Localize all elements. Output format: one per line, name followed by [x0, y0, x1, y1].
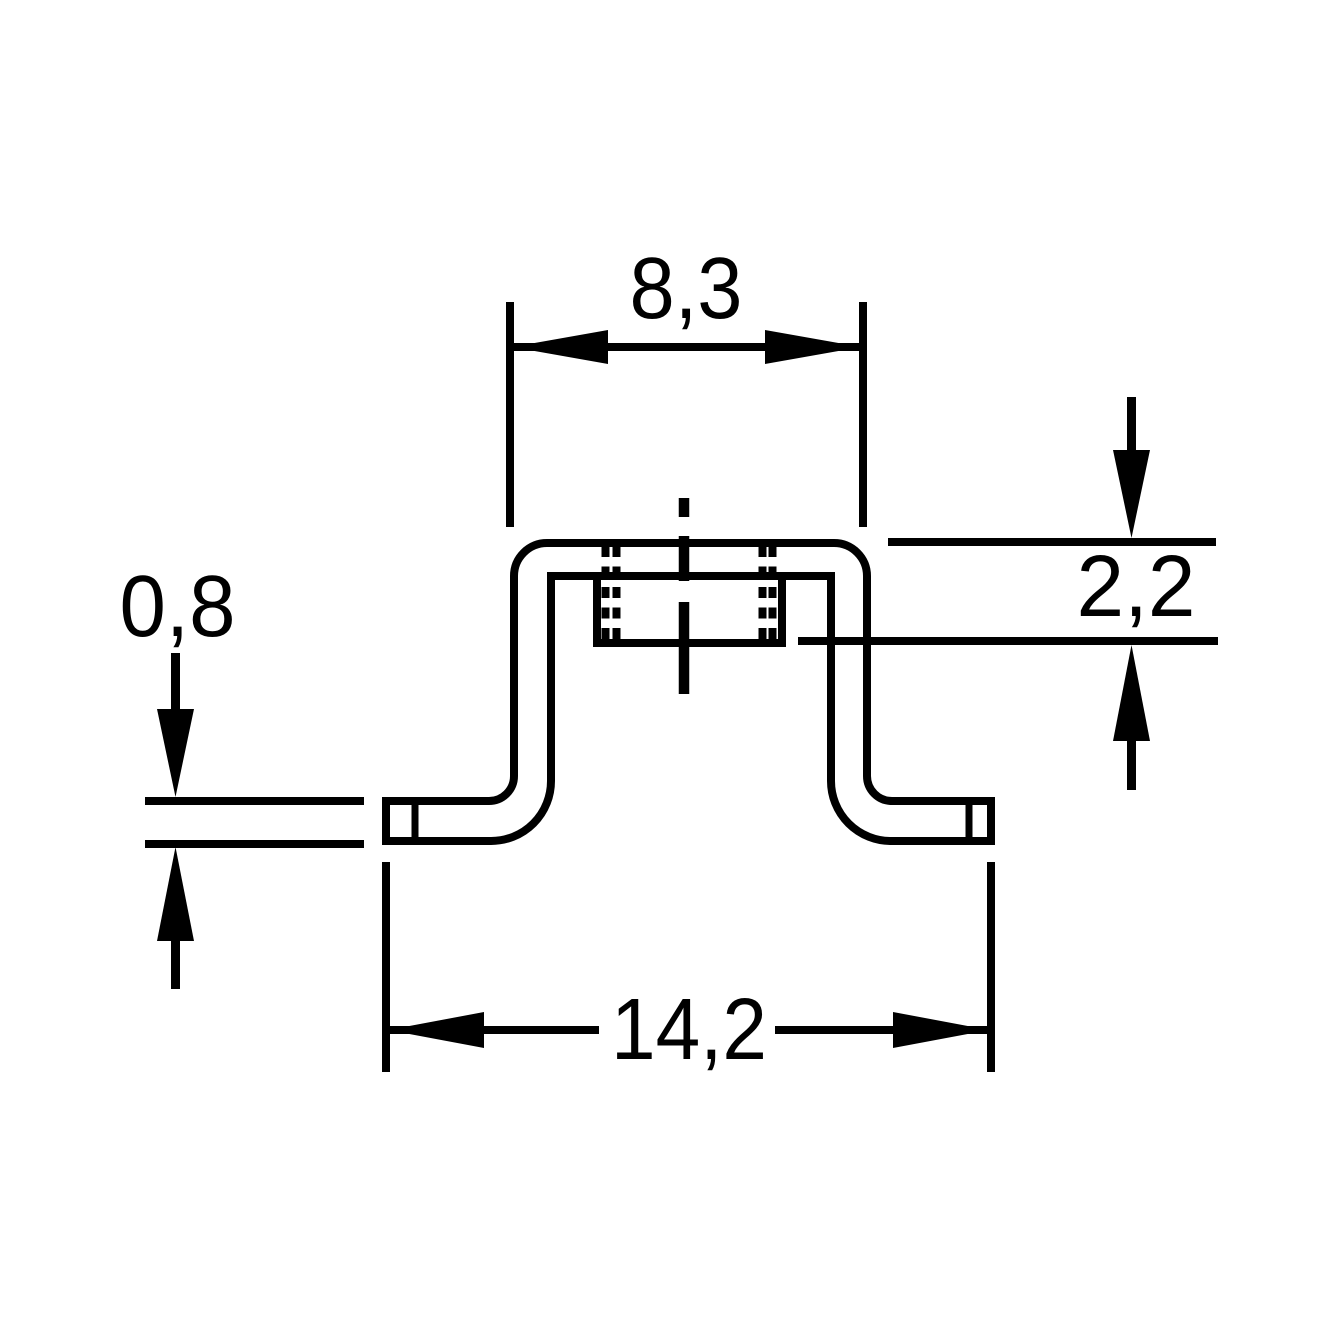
- dim 8,3 left extension line: [506, 302, 514, 527]
- dim 0,8 up arrowhead: [157, 847, 194, 941]
- dim 2,2 down arrow stem: [1127, 397, 1136, 455]
- dim 0,8 up arrow stem: [171, 935, 180, 989]
- dim 14,2 right extension line: [987, 862, 995, 1072]
- knurl dotted line left a: [602, 546, 610, 647]
- dim 2,2 down arrowhead: [1113, 450, 1150, 538]
- left foot end cap: [382, 797, 390, 845]
- dim 8,3 dimension line: [513, 343, 860, 351]
- svg-text:2,2: 2,2: [1077, 538, 1196, 635]
- dim 2,2 up arrow stem: [1127, 735, 1136, 790]
- dim 14,2 right arrowhead: [893, 1012, 989, 1048]
- dim 0,8 down arrowhead: [157, 709, 194, 797]
- dim 0,8 down arrow stem: [171, 653, 180, 712]
- right foot inner edge line: [966, 803, 973, 839]
- center insert box bottom edge: [593, 639, 786, 647]
- profile outer-top contour (hat top outer surface, legs outer, feet top): [386, 543, 991, 801]
- dim 14,2 left arrowhead: [388, 1012, 484, 1048]
- knurl dotted line right a: [759, 546, 767, 647]
- center insert box left edge: [593, 576, 601, 643]
- dim 2,2 bottom extension line: [798, 637, 1218, 645]
- dim 8,3 left arrowhead: [512, 330, 608, 364]
- dim 2,2 top extension line: [888, 538, 1216, 546]
- dim 14,2 dimension line right segment: [775, 1026, 988, 1034]
- knurl dotted line left b: [613, 546, 621, 647]
- svg-text:14,2: 14,2: [611, 981, 767, 1078]
- right foot end cap: [987, 797, 995, 845]
- vertical center line (dash-dot): [679, 498, 690, 694]
- sheet strip left bottom line: [145, 840, 364, 848]
- dim 8,3 right extension line: [859, 302, 867, 527]
- svg-text:8,3: 8,3: [630, 240, 743, 337]
- center insert box right edge: [778, 576, 786, 643]
- dim 14,2 dimension line left segment: [389, 1026, 599, 1034]
- profile inner-bottom contour (hat top inner surface, legs inner, feet bottom): [386, 576, 991, 841]
- sheet strip left (thickness reference) top line: [145, 797, 364, 805]
- dim 2,2 up arrowhead: [1113, 645, 1150, 741]
- dim 14,2 left extension line: [382, 862, 390, 1072]
- dim 8,3 right arrowhead: [765, 330, 861, 364]
- knurl dotted line right b: [769, 546, 777, 647]
- svg-text:0,8: 0,8: [120, 558, 236, 655]
- left foot inner edge line: [412, 803, 419, 839]
